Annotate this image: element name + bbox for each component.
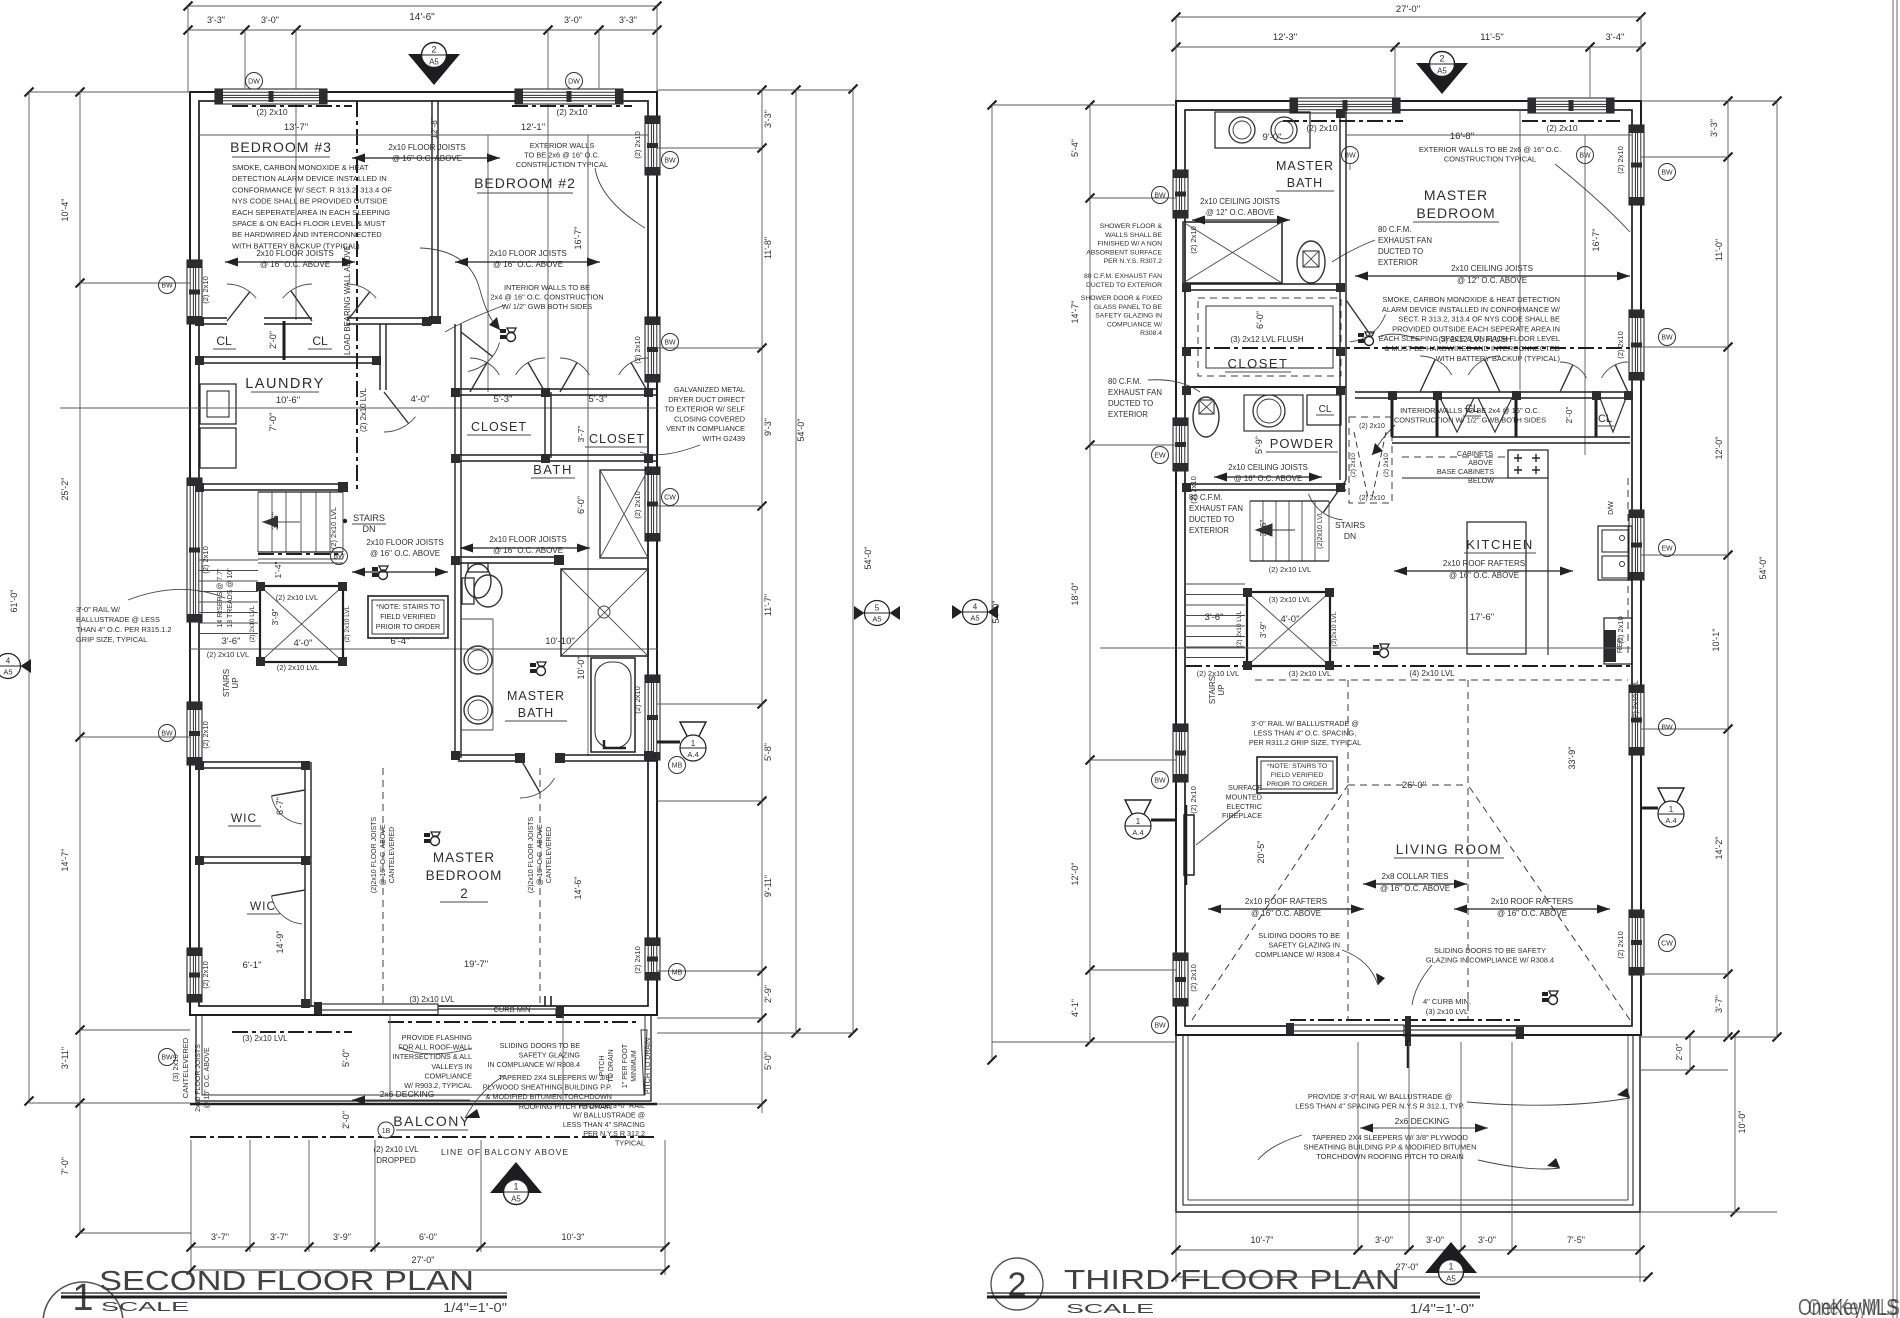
svg-text:BEDROOM #2: BEDROOM #2 bbox=[474, 175, 576, 191]
svg-text:4: 4 bbox=[973, 603, 978, 612]
svg-text:3'-11": 3'-11" bbox=[60, 1047, 70, 1069]
svg-text:4'-0": 4'-0" bbox=[411, 394, 430, 405]
svg-text:*NOTE: STAIRS TOFIELD VERIFIED: *NOTE: STAIRS TOFIELD VERIFIEDPRIOIR TO … bbox=[1267, 763, 1328, 788]
svg-text:STAIRS: STAIRS bbox=[222, 669, 231, 697]
svg-text:A5: A5 bbox=[1446, 1275, 1456, 1284]
interior dim line y649 bbox=[190, 648, 657, 650]
svg-text:14 RISERS @ 7.7": 14 RISERS @ 7.7" bbox=[217, 568, 224, 628]
svg-text:BW: BW bbox=[1154, 193, 1166, 200]
svg-text:BATH: BATH bbox=[518, 706, 554, 720]
svg-text:80 C.F.M. EXHAUST FANDUCTED TO: 80 C.F.M. EXHAUST FANDUCTED TO EXTERIOR bbox=[1084, 273, 1162, 289]
svg-text:(2) 2x10 LVL: (2) 2x10 LVL bbox=[1197, 669, 1239, 678]
svg-text:4'-0": 4'-0" bbox=[1281, 614, 1300, 625]
svg-text:EW: EW bbox=[1661, 546, 1673, 553]
svg-text:(2) 2x10: (2) 2x10 bbox=[201, 276, 210, 304]
wic north wall y765 bbox=[199, 761, 310, 763]
svg-text:STAIRS: STAIRS bbox=[353, 513, 385, 523]
svg-text:INTERIOR WALLS TO BE2x4 @ 16": INTERIOR WALLS TO BE2x4 @ 16" O.C. CONST… bbox=[490, 283, 603, 311]
top extension lines right plan bbox=[1175, 17, 1177, 101]
CL closets master bedroom south bbox=[1355, 391, 1630, 393]
second floor plan - top dimension line 27ft overall bbox=[188, 5, 657, 7]
svg-text:STAIRS: STAIRS bbox=[1335, 520, 1365, 530]
window right wall y938 bbox=[645, 938, 660, 980]
svg-text:BW: BW bbox=[161, 283, 173, 290]
svg-text:16'-7": 16'-7" bbox=[573, 227, 583, 250]
dim column left x80 bbox=[79, 92, 81, 1233]
svg-text:(3) 2x10 LVL: (3) 2x10 LVL bbox=[1289, 669, 1331, 678]
svg-text:4'-0": 4'-0" bbox=[294, 638, 313, 649]
door arc closet to bedroom bbox=[1346, 300, 1370, 334]
wic divider wall y860 bbox=[199, 856, 311, 858]
svg-text:3'-3": 3'-3" bbox=[207, 15, 225, 25]
svg-text:@ 16" O.C. ABOVE: @ 16" O.C. ABOVE bbox=[204, 1047, 211, 1109]
svg-text:2x10 CEILING JOISTS: 2x10 CEILING JOISTS bbox=[1200, 197, 1280, 206]
svg-text:(2)2x10 LVL: (2)2x10 LVL bbox=[1317, 511, 1324, 549]
svg-text:(2) 2x10: (2) 2x10 bbox=[1189, 226, 1198, 254]
svg-text:2: 2 bbox=[1439, 54, 1444, 64]
svg-text:1: 1 bbox=[691, 739, 696, 748]
(4) 2x10 LVL dash-dot bbox=[1186, 665, 1632, 667]
balcony step symbol bbox=[545, 996, 551, 1006]
laundry east wall x382 bbox=[379, 324, 381, 390]
svg-text:WIC: WIC bbox=[250, 899, 276, 913]
svg-text:(3) 2x10 LVL: (3) 2x10 LVL bbox=[242, 1034, 288, 1043]
svg-text:(2) 2x10: (2) 2x10 bbox=[1616, 931, 1625, 959]
powder room toilet bbox=[1193, 397, 1219, 437]
bath toilet bbox=[465, 564, 491, 598]
dim column right x762 bbox=[761, 90, 763, 1113]
smoke detector master bedroom bbox=[424, 832, 440, 846]
svg-text:13'-7": 13'-7" bbox=[284, 122, 308, 133]
svg-text:(2) 2x10 LVL: (2) 2x10 LVL bbox=[359, 387, 368, 432]
svg-text:2x10 FLOOR JOISTS: 2x10 FLOOR JOISTS bbox=[489, 249, 566, 258]
note box stairs field verify bbox=[368, 596, 448, 638]
svg-text:(2) 2x10: (2) 2x10 bbox=[1616, 616, 1625, 644]
window left wall lower-mid bbox=[187, 702, 202, 765]
svg-text:3'-6": 3'-6" bbox=[1205, 612, 1224, 623]
svg-text:CLOSET: CLOSET bbox=[589, 432, 645, 446]
BW octagons rp right bbox=[1659, 164, 1676, 181]
svg-text:MASTER: MASTER bbox=[1276, 159, 1334, 173]
dim line 61ft far left bbox=[28, 92, 30, 1101]
hall wall x458 bbox=[454, 324, 456, 758]
lvl flush dash-dot line bbox=[1186, 347, 1632, 349]
svg-text:EXTERIOR WALLSTO BE 2x6 @ 16": EXTERIOR WALLSTO BE 2x6 @ 16" O.C.CONSTR… bbox=[516, 141, 608, 169]
dim line 54ft rp right x1777 bbox=[1776, 101, 1778, 1037]
svg-text:@ 16" O.C. ABOVE: @ 16" O.C. ABOVE bbox=[1251, 909, 1321, 918]
deck inner border bbox=[1183, 1035, 1633, 1205]
svg-text:BW: BW bbox=[1661, 725, 1673, 732]
cantilever joist dashed line 1 bbox=[382, 768, 384, 1006]
bath shower stall bbox=[600, 470, 648, 558]
svg-text:10'-10": 10'-10" bbox=[545, 636, 574, 647]
svg-text:54'-0": 54'-0" bbox=[863, 547, 873, 570]
windows left wall right plan bbox=[1173, 170, 1188, 218]
svg-text:2'-0": 2'-0" bbox=[341, 1111, 351, 1129]
svg-text:POWDER: POWDER bbox=[1270, 436, 1335, 451]
svg-text:3'-6": 3'-6" bbox=[1258, 520, 1268, 537]
window right wall y675 bbox=[645, 675, 660, 760]
svg-text:5'-9": 5'-9" bbox=[1254, 436, 1264, 454]
svg-text:BW: BW bbox=[1661, 335, 1673, 342]
svg-text:7'-5": 7'-5" bbox=[1567, 1235, 1585, 1245]
BW octagons right of left plan bbox=[662, 152, 679, 169]
stairwell dashed box bbox=[1349, 417, 1392, 503]
tub drain handle bbox=[604, 740, 626, 748]
svg-text:(2) 2x10: (2) 2x10 bbox=[201, 721, 210, 749]
BW octagons top right plan bbox=[1342, 147, 1359, 164]
svg-text:(3) 2x10 LVL: (3) 2x10 LVL bbox=[409, 995, 455, 1004]
svg-text:LIVING ROOM: LIVING ROOM bbox=[1396, 842, 1503, 857]
svg-text:12'-3": 12'-3" bbox=[1273, 32, 1297, 43]
svg-text:MINIMUM: MINIMUM bbox=[631, 1050, 638, 1082]
interior hline y135 bbox=[199, 134, 648, 136]
svg-text:12'-1": 12'-1" bbox=[521, 122, 545, 133]
master bath toilet bbox=[1297, 241, 1325, 283]
cantilever joist dashed line 2 bbox=[539, 768, 541, 1006]
svg-text:3'-3": 3'-3" bbox=[619, 15, 637, 25]
svg-text:11'-7": 11'-7" bbox=[763, 594, 773, 616]
svg-text:2x10 CEILING JOISTS: 2x10 CEILING JOISTS bbox=[1451, 264, 1533, 273]
svg-text:CLOSET: CLOSET bbox=[471, 420, 527, 434]
svg-text:CW: CW bbox=[664, 495, 676, 502]
closet bottom wall y360 bbox=[199, 356, 380, 358]
svg-text:3'-4": 3'-4" bbox=[1606, 32, 1625, 43]
svg-text:5'-3": 5'-3" bbox=[494, 394, 513, 405]
svg-text:DW: DW bbox=[248, 79, 260, 86]
door arc powder bbox=[1323, 480, 1346, 513]
rp right extension lines bbox=[1641, 100, 1777, 102]
svg-text:@ 12" O.C. ABOVE: @ 12" O.C. ABOVE bbox=[1457, 276, 1527, 285]
svg-text:@ 12" O.C. ABOVE: @ 12" O.C. ABOVE bbox=[1206, 208, 1274, 217]
window W2 top wall bbox=[515, 89, 623, 104]
svg-text:11'-8": 11'-8" bbox=[763, 237, 773, 259]
svg-text:TO DRAIN: TO DRAIN bbox=[608, 1049, 615, 1082]
svg-text:BW: BW bbox=[333, 554, 345, 561]
interior vline x488 bedroom2 bbox=[487, 135, 489, 392]
left plan exterior wall outer bbox=[190, 92, 657, 1015]
balcony bottom thick edge bbox=[190, 1103, 657, 1106]
stairs DN treads bbox=[257, 492, 259, 552]
svg-text:A.4: A.4 bbox=[1132, 828, 1143, 837]
svg-text:5'-0": 5'-0" bbox=[341, 1049, 351, 1067]
svg-text:CLOSET: CLOSET bbox=[1227, 356, 1288, 371]
svg-text:19'-7": 19'-7" bbox=[464, 959, 488, 970]
svg-text:2x10 ROOF RAFTERS: 2x10 ROOF RAFTERS bbox=[1443, 559, 1525, 568]
svg-text:2: 2 bbox=[460, 886, 468, 901]
svg-text:3'-0": 3'-0" bbox=[261, 15, 279, 25]
master bath tub bbox=[591, 658, 635, 752]
dim column 54ft x796 bbox=[795, 90, 797, 1033]
svg-text:BALCONY: BALCONY bbox=[393, 1113, 470, 1129]
section marker 1/A5 bottom left plan bbox=[490, 1162, 542, 1205]
svg-text:1: 1 bbox=[513, 1182, 518, 1192]
svg-text:25'-2": 25'-2" bbox=[60, 478, 70, 501]
svg-text:(2)2x10 LVL: (2)2x10 LVL bbox=[1331, 611, 1338, 646]
svg-text:16'-7": 16'-7" bbox=[1591, 229, 1601, 252]
laundry bottom wall y487 bbox=[199, 483, 345, 485]
svg-text:@ 16" O.C. ABOVE: @ 16" O.C. ABOVE bbox=[392, 154, 462, 163]
svg-text:DN: DN bbox=[1344, 531, 1356, 541]
kitchen island bbox=[1467, 522, 1526, 654]
svg-text:(2) 2x10: (2) 2x10 bbox=[256, 107, 287, 117]
svg-text:3'-6": 3'-6" bbox=[222, 636, 241, 647]
center mullion mark bbox=[1405, 1016, 1411, 1046]
right plan exterior wall outer bbox=[1176, 101, 1641, 1035]
smoke detector living room bbox=[1542, 991, 1558, 1005]
svg-text:LINE OF BALCONY ABOVE: LINE OF BALCONY ABOVE bbox=[441, 1147, 569, 1157]
interior dim line y408 bbox=[60, 407, 657, 409]
interior hline y135 right plan bbox=[1347, 134, 1632, 136]
svg-text:BW: BW bbox=[664, 158, 676, 165]
svg-text:(2) 2x10 LVL: (2) 2x10 LVL bbox=[344, 605, 351, 642]
svg-text:10'-0": 10'-0" bbox=[576, 657, 586, 680]
svg-text:A5: A5 bbox=[3, 668, 12, 677]
balloon 18 bbox=[378, 1122, 394, 1138]
section marker 1/A4 right bbox=[680, 722, 706, 748]
svg-text:CL: CL bbox=[312, 334, 328, 348]
section marker 1/A4 rp right bbox=[1658, 788, 1684, 814]
svg-text:6'-0": 6'-0" bbox=[419, 1232, 437, 1242]
master bath toilet bbox=[462, 578, 474, 604]
bifold doors CL1 bbox=[1440, 398, 1512, 432]
svg-text:7'-0": 7'-0" bbox=[268, 413, 279, 432]
svg-text:OneKeyMLS: OneKeyMLS bbox=[1808, 1294, 1900, 1318]
refrigerator bbox=[1604, 630, 1616, 662]
svg-text:2'-0": 2'-0" bbox=[1674, 1044, 1684, 1061]
smoke detector bedroom2 bbox=[372, 566, 388, 580]
svg-text:(2) 2x10: (2) 2x10 bbox=[1383, 453, 1390, 477]
svg-text:12'-8": 12'-8" bbox=[429, 117, 439, 139]
svg-text:1: 1 bbox=[1448, 1262, 1453, 1272]
windows right wall right plan bbox=[1629, 125, 1644, 205]
svg-text:3'-9": 3'-9" bbox=[333, 1232, 351, 1242]
window left wall mid (double) bbox=[187, 478, 202, 622]
bottom dim row bbox=[191, 1246, 665, 1248]
svg-text:@ 16" O.C. ABOVE: @ 16" O.C. ABOVE bbox=[1380, 884, 1450, 893]
svg-text:3'-9": 3'-9" bbox=[270, 609, 280, 626]
bottom extension verticals bbox=[249, 1140, 251, 1252]
wic east wall x308 bbox=[304, 762, 306, 1006]
svg-text:@ 16" O.C. ABOVE: @ 16" O.C. ABOVE bbox=[493, 260, 563, 269]
svg-text:(4) 2x10 LVL: (4) 2x10 LVL bbox=[1409, 669, 1455, 678]
svg-text:3'-7": 3'-7" bbox=[576, 426, 586, 443]
svg-text:4'-1": 4'-1" bbox=[1070, 999, 1080, 1017]
DW window octagon markers bbox=[246, 73, 263, 90]
rp bottom dim row bbox=[1176, 1249, 1640, 1251]
svg-text:2x10 CEILING JOISTS: 2x10 CEILING JOISTS bbox=[1228, 463, 1308, 472]
svg-text:BW: BW bbox=[1154, 1023, 1166, 1030]
svg-text:16'-8": 16'-8" bbox=[1450, 131, 1474, 142]
svg-text:(2) 2x10: (2) 2x10 bbox=[201, 961, 210, 989]
svg-text:(2) 2x10: (2) 2x10 bbox=[633, 686, 642, 714]
svg-text:1" PER FOOT: 1" PER FOOT bbox=[622, 1043, 629, 1088]
svg-text:6'-1": 6'-1" bbox=[243, 960, 262, 971]
window top wall right plan 2 bbox=[1528, 98, 1614, 113]
svg-text:14'-9": 14'-9" bbox=[275, 931, 285, 954]
svg-text:1'-4": 1'-4" bbox=[273, 562, 283, 579]
dim line 54ft rp left bbox=[991, 105, 993, 1060]
svg-text:20'-5": 20'-5" bbox=[1256, 841, 1266, 864]
joist arrow bath bbox=[460, 544, 590, 553]
master bath shower box bbox=[1183, 222, 1282, 283]
svg-text:SLIDING DOORS TO BE SAFETYGLAZ: SLIDING DOORS TO BE SAFETYGLAZING IN COM… bbox=[1426, 946, 1554, 964]
svg-text:2x10 FLOOR JOISTS: 2x10 FLOOR JOISTS bbox=[388, 143, 465, 152]
svg-text:MB: MB bbox=[672, 763, 683, 770]
third floor plan top dim 27ft bbox=[1176, 16, 1641, 18]
svg-text:13 TREADS @ 10": 13 TREADS @ 10" bbox=[227, 568, 234, 628]
svg-text:9'-11": 9'-11" bbox=[763, 875, 773, 897]
svg-text:12'-0": 12'-0" bbox=[1714, 437, 1724, 460]
svg-text:BEDROOM #3: BEDROOM #3 bbox=[230, 139, 332, 155]
rp bottom extension verticals bbox=[1175, 1212, 1177, 1282]
title circle 2 bbox=[991, 1258, 1043, 1310]
window W1 top wall bbox=[215, 89, 327, 104]
svg-text:A5: A5 bbox=[1437, 67, 1447, 76]
svg-text:(2) 2x10 LVL: (2) 2x10 LVL bbox=[207, 650, 249, 659]
fireplace on left wall bbox=[1184, 815, 1194, 875]
10-0 dim deck right bbox=[1734, 1035, 1736, 1212]
svg-text:4: 4 bbox=[6, 657, 11, 666]
BW octagons left wall bbox=[159, 277, 176, 294]
svg-text:D/W: D/W bbox=[1608, 501, 1615, 515]
svg-text:3'-9": 3'-9" bbox=[1259, 622, 1268, 638]
svg-text:61'-0": 61'-0" bbox=[9, 590, 19, 613]
title circle 1 bbox=[43, 1282, 123, 1318]
svg-text:(2) 2x10 LVL: (2) 2x10 LVL bbox=[249, 605, 256, 642]
svg-text:1/4"=1'-0": 1/4"=1'-0" bbox=[443, 1300, 507, 1315]
svg-text:PITCH: PITCH bbox=[599, 1056, 606, 1077]
svg-text:(2) 2x10: (2) 2x10 bbox=[1546, 123, 1577, 133]
svg-text:(3) 2x10: (3) 2x10 bbox=[171, 1054, 180, 1082]
svg-text:KITCHEN: KITCHEN bbox=[1466, 537, 1534, 552]
joist arrow mid top bbox=[352, 154, 500, 163]
svg-text:2'-0": 2'-0" bbox=[268, 331, 278, 349]
svg-text:MASTER: MASTER bbox=[433, 850, 495, 865]
svg-text:MASTER: MASTER bbox=[507, 689, 565, 703]
svg-text:(2) 2x10: (2) 2x10 bbox=[556, 107, 587, 117]
CL door swing arcs into bedroom bbox=[1420, 359, 1435, 392]
svg-text:7'-0": 7'-0" bbox=[60, 1157, 70, 1175]
bifold doors CL2 bbox=[1600, 398, 1626, 432]
svg-text:DROPPED: DROPPED bbox=[376, 1156, 416, 1165]
svg-text:STAIRS: STAIRS bbox=[1208, 676, 1217, 704]
svg-text:@ 16" O.C. ABOVE: @ 16" O.C. ABOVE bbox=[537, 824, 544, 886]
svg-text:(2) 2x10 LVL: (2) 2x10 LVL bbox=[277, 663, 319, 672]
svg-text:BATH: BATH bbox=[1287, 176, 1323, 190]
smoke detector rp closet bbox=[1358, 332, 1374, 346]
powder south wall y487 bbox=[1186, 483, 1346, 485]
section marker 1/A5 rp bottom bbox=[1425, 1242, 1477, 1285]
balcony interior verticals bbox=[389, 1015, 391, 1101]
svg-text:A5: A5 bbox=[511, 1195, 521, 1204]
smoke detector symbol bedroom3 bbox=[500, 328, 516, 342]
svg-text:@ 16" O.C. ABOVE: @ 16" O.C. ABOVE bbox=[260, 260, 330, 269]
svg-text:3'-0": 3'-0" bbox=[1426, 1235, 1444, 1245]
door arc master bath entry bbox=[520, 758, 540, 793]
master bath south wall y758 bbox=[458, 754, 520, 756]
wall junction blocks left plan bbox=[451, 388, 460, 397]
svg-text:SCALE: SCALE bbox=[1066, 1301, 1155, 1316]
window right wall y467 bbox=[645, 467, 660, 541]
drain wedge bbox=[641, 1030, 647, 1095]
interior vline x588 bbox=[587, 135, 589, 756]
svg-text:4" CURB MIN.: 4" CURB MIN. bbox=[1423, 997, 1471, 1006]
svg-text:2x10 FLOOR JOISTS: 2x10 FLOOR JOISTS bbox=[195, 1044, 202, 1112]
sliding door bottom wall rp bbox=[1290, 1019, 1520, 1021]
interior vline x1585 rp bbox=[1584, 135, 1586, 455]
svg-text:UP: UP bbox=[231, 677, 240, 688]
svg-text:14'-6": 14'-6" bbox=[573, 877, 583, 900]
svg-text:BW: BW bbox=[664, 340, 676, 347]
stairs dn right plan treads bbox=[1249, 501, 1251, 561]
svg-text:54'-0": 54'-0" bbox=[796, 419, 806, 442]
BW octagons rp left bbox=[1152, 187, 1169, 204]
svg-text:27'-0": 27'-0" bbox=[1396, 4, 1420, 15]
rp bottom 27ft dim bbox=[1176, 1276, 1648, 1278]
master bath vanity bbox=[1215, 112, 1310, 148]
svg-text:MASTER: MASTER bbox=[1424, 187, 1488, 203]
svg-text:11'-0": 11'-0" bbox=[1714, 239, 1724, 261]
closet bottom wall y458 bbox=[458, 454, 657, 456]
right extension lines from left plan bbox=[657, 89, 853, 91]
master bath sink circles bbox=[464, 646, 492, 674]
svg-text:BW: BW bbox=[1661, 170, 1673, 177]
svg-text:10'-7": 10'-7" bbox=[1251, 1235, 1274, 1245]
svg-text:(2) 2x10 LVL: (2) 2x10 LVL bbox=[1236, 610, 1243, 647]
svg-text:(2) 2x10: (2) 2x10 bbox=[1616, 331, 1625, 359]
title underline rp bbox=[987, 1292, 1480, 1294]
svg-text:(2) 2x10: (2) 2x10 bbox=[633, 491, 642, 519]
svg-text:2x10 FLOOR JOISTS: 2x10 FLOOR JOISTS bbox=[489, 535, 566, 544]
svg-text:(2) 2x10: (2) 2x10 bbox=[201, 546, 210, 574]
window top wall right plan 1 bbox=[1290, 98, 1400, 113]
svg-text:(2) 2x10 LVL: (2) 2x10 LVL bbox=[276, 593, 318, 602]
svg-text:10'-1": 10'-1" bbox=[1711, 629, 1721, 652]
svg-text:CANTELEVERED: CANTELEVERED bbox=[546, 827, 553, 883]
elevator shaft rp bbox=[1247, 592, 1330, 666]
section marker 5/A5 bbox=[854, 601, 900, 626]
svg-text:14'-7": 14'-7" bbox=[60, 849, 70, 872]
balcony leader arrows bbox=[400, 1048, 472, 1054]
svg-text:BEDROOM: BEDROOM bbox=[426, 868, 503, 883]
joist arrow bedroom3 bbox=[225, 258, 355, 267]
page right border bbox=[1892, 0, 1894, 1318]
deck rail post lines bbox=[1357, 1042, 1359, 1250]
svg-text:(2) 2x10: (2) 2x10 bbox=[1359, 495, 1385, 502]
svg-text:SMOKE, CARBON MONOXIDE & HEAT: SMOKE, CARBON MONOXIDE & HEAT DETECTIONA… bbox=[1379, 295, 1561, 363]
laundry door leaf bbox=[384, 392, 409, 424]
svg-text:THIRD FLOOR PLAN: THIRD FLOOR PLAN bbox=[1064, 1264, 1400, 1295]
top dim segments right plan bbox=[1176, 46, 1641, 48]
svg-text:(2) 2x10: (2) 2x10 bbox=[1306, 123, 1337, 133]
svg-text:@ 16" O.C. ABOVE: @ 16" O.C. ABOVE bbox=[1449, 571, 1519, 580]
joist label above note box bbox=[352, 568, 448, 577]
wall bedroom divider vertical x435 bbox=[431, 101, 433, 322]
svg-text:SLIDING DOORS TO BESAFETY GLAZ: SLIDING DOORS TO BESAFETY GLAZING INCOMP… bbox=[1255, 931, 1340, 959]
svg-text:DW: DW bbox=[568, 79, 580, 86]
svg-text:3'-0": 3'-0" bbox=[1478, 1235, 1496, 1245]
svg-text:6'-0": 6'-0" bbox=[1255, 311, 1265, 329]
closet south wall y390 bbox=[1186, 386, 1346, 388]
svg-text:A.4: A.4 bbox=[687, 750, 698, 759]
svg-text:BW: BW bbox=[1154, 778, 1166, 785]
svg-text:(3) 2x10 LVL: (3) 2x10 LVL bbox=[1426, 1007, 1468, 1016]
window left wall bottom bbox=[187, 948, 202, 1002]
svg-text:2x6 DECKING: 2x6 DECKING bbox=[380, 1089, 435, 1099]
cooktop box bbox=[1508, 450, 1548, 478]
svg-text:5: 5 bbox=[875, 604, 880, 613]
